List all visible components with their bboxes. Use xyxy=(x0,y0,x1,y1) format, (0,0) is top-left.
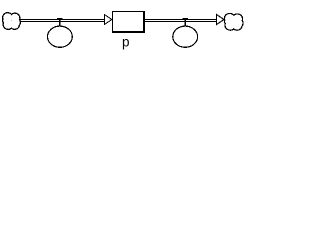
svg-text:p: p xyxy=(122,34,130,49)
